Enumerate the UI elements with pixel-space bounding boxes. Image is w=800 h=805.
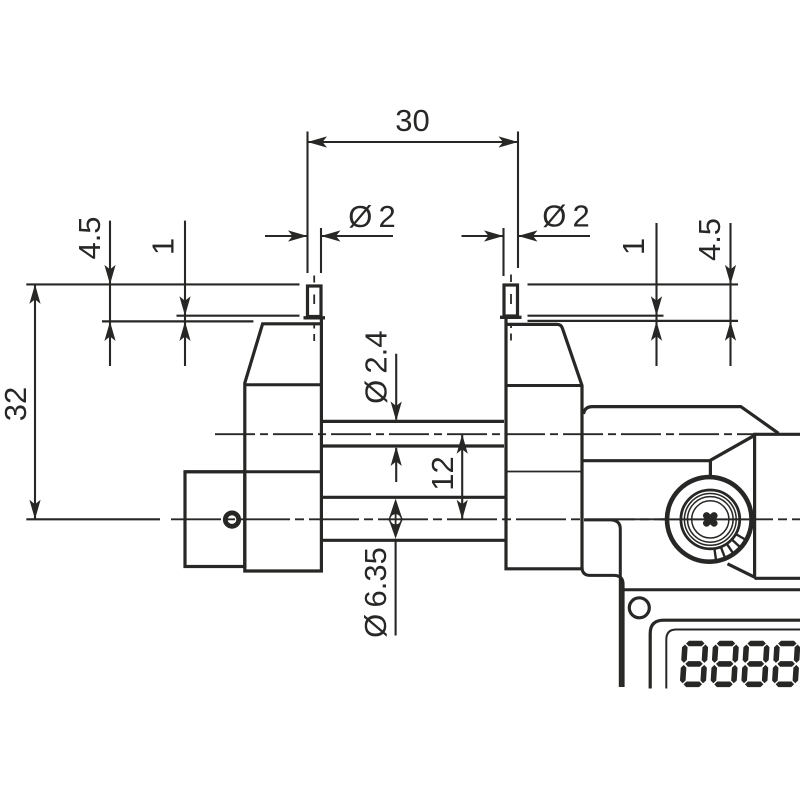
micrometer head frame [710,435,800,578]
dimension 32 (left overall height) [0,284,160,519]
reference line: jaw-top plane (left and right) [102,320,738,323]
lower rod (Ø6.35) [323,497,505,540]
upper rod (Ø2.4) [323,421,504,446]
micrometer sleeve (barrel) [583,407,800,478]
dimension Ø2.4 (upper rod) [358,330,401,482]
dimension 1 (right) [616,223,662,366]
centerline across thumbwheel [660,518,752,520]
svg-text:1: 1 [146,238,181,255]
frame step below right jaw [582,520,800,687]
right jaw block [505,317,582,569]
reference line: top-of-pin plane (left and right) [26,283,738,285]
right measuring pin (Ø2) [500,285,522,317]
svg-text:1: 1 [616,238,651,255]
svg-text:12: 12 [425,456,460,490]
display bezel inner line [666,630,800,689]
svg-text:Ø 2.4: Ø 2.4 [358,330,393,403]
dimension 4.5 (right) [692,218,736,366]
dimension 1 (left) [146,221,191,366]
dimension Ø6.35 (lower rod) [358,499,404,638]
dimension 4.5 (left) [72,216,116,366]
dimension Ø2 (left pin diameter) [265,199,396,273]
thumbwheel center screw cross [702,511,719,528]
dimension 30 (top, between pin outer edges) [308,103,519,273]
hole in left end block [225,513,238,526]
svg-text:Ø 2: Ø 2 [542,199,590,234]
svg-text:Ø 6.35: Ø 6.35 [358,547,393,638]
right pin centerline [510,275,512,341]
lower axis centerline [171,518,800,520]
svg-text:30: 30 [395,103,429,138]
left end block [185,472,245,567]
left measuring pin (Ø2) [304,286,326,318]
left pin centerline [313,276,315,342]
svg-text:4.5: 4.5 [692,218,727,261]
thumbwheel ratchet lines [714,534,745,559]
reference line: 1 mm plane (left and right) [177,315,664,317]
dimension 12 (axis distance) [425,434,468,519]
left jaw block [185,318,321,571]
svg-text:Ø 2: Ø 2 [348,199,396,234]
svg-text:4.5: 4.5 [72,216,107,259]
svg-text:32: 32 [0,387,33,421]
display bezel outer line [650,620,800,688]
LCD digits 8888 [680,641,800,687]
upper axis centerline [215,433,800,435]
thumbwheel outer ring [667,477,752,562]
small button on housing [629,598,649,618]
thumbwheel inner rings [681,490,740,549]
dimension Ø2 (right pin diameter) [462,199,591,277]
